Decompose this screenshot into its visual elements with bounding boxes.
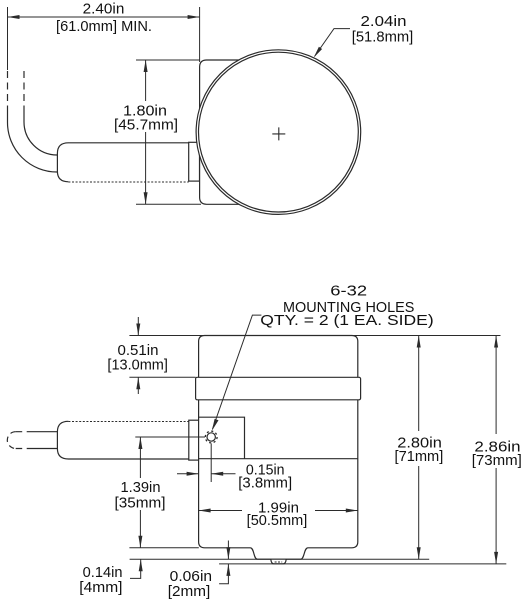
svg-text:[3.8mm]: [3.8mm] — [238, 476, 292, 492]
strain relief (top view) — [57, 143, 188, 182]
arrow 2.40 left — [8, 15, 20, 19]
dimension line 2.40in — [8, 16, 200, 18]
square body (top view, tab under cap, rounded left corners) — [200, 60, 290, 204]
svg-text:0.06in: 0.06in — [170, 569, 212, 585]
dimension 0.51in stubs and arrows — [137, 317, 139, 394]
arrow leader QTY — [212, 419, 219, 431]
ferrule (top view) — [189, 142, 200, 181]
svg-text:[45.7mm]: [45.7mm] — [114, 118, 178, 134]
seam line — [199, 458, 358, 460]
arrow 1.39 top (up) — [138, 437, 142, 449]
svg-text:[35mm]: [35mm] — [115, 496, 166, 512]
arrow 1.99 right — [346, 509, 358, 513]
dimension 1.99in lines — [199, 510, 358, 512]
band top extension line — [129, 376, 195, 378]
round cap inner circle — [199, 52, 359, 212]
ferrule (side view) — [189, 420, 200, 460]
arrow 1.39 bottom (down) — [138, 536, 142, 548]
leader 2.04in — [315, 29, 350, 56]
extension line 1.80 top — [136, 59, 200, 61]
arrow 2.80 top (up) — [417, 336, 421, 348]
extension line B (platform bottom) — [130, 558, 430, 560]
dimension 2.40in extension line right — [199, 7, 201, 62]
arrow 0.51 top (down) — [136, 324, 140, 336]
hole center horizontal extension — [135, 436, 205, 438]
extension line A (body bottom, left) — [129, 547, 198, 549]
dome inner line — [275, 561, 283, 563]
arrow 0.14 (up at line B) — [139, 559, 143, 571]
arrow 1.80 bottom — [144, 192, 148, 204]
mounting hole 6-32 thread dashes — [205, 431, 217, 443]
dimension 0.06in stubs — [219, 541, 228, 584]
arrow 0.15 right-pointing — [187, 472, 199, 476]
svg-text:2.40in: 2.40in — [83, 1, 125, 17]
round cap outer circle (2.04in dia) — [196, 50, 361, 215]
arrow leader 2.04 — [314, 47, 323, 58]
svg-text:[73mm]: [73mm] — [472, 453, 522, 469]
svg-text:6-32: 6-32 — [330, 283, 367, 299]
mounting hole circle — [207, 433, 215, 441]
dimension 2.40in extension line left — [7, 7, 9, 70]
dimension 0.14in stub and arrow — [130, 559, 141, 578]
svg-text:[71mm]: [71mm] — [395, 449, 444, 465]
dimension 1.39in line — [139, 437, 141, 548]
center cross — [272, 127, 285, 140]
hole center vertical extension — [210, 444, 212, 483]
cable (side view) — [7, 432, 57, 449]
svg-text:1.39in: 1.39in — [121, 480, 161, 496]
arrow 2.80 bottom (down) — [417, 547, 421, 559]
svg-text:QTY. = 2 (1 EA. SIDE): QTY. = 2 (1 EA. SIDE) — [260, 313, 433, 329]
svg-text:[13.0mm]: [13.0mm] — [107, 358, 168, 374]
dimension line 1.80in — [145, 60, 147, 204]
extension line 1.80 bottom — [136, 203, 201, 205]
arrow 0.15 left-pointing — [211, 472, 223, 476]
arrow 0.06 top (down at line B) — [226, 547, 230, 559]
arrow 0.51 bottom (up) — [136, 377, 140, 389]
svg-text:[61.0mm] MIN.: [61.0mm] MIN. — [56, 19, 152, 35]
mounting boss rectangle — [199, 417, 245, 459]
arrow 1.99 left — [199, 509, 211, 513]
arrow 2.40 right — [188, 15, 200, 19]
dimension 2.86in line — [495, 336, 497, 564]
clamp band ring — [196, 377, 361, 400]
body outline with bottom recess (side view) — [199, 336, 358, 560]
dome button (bottom) — [271, 559, 286, 564]
svg-text:[4mm]: [4mm] — [79, 580, 122, 596]
svg-text:0.51in: 0.51in — [118, 343, 159, 359]
svg-text:[51.8mm]: [51.8mm] — [352, 30, 414, 46]
arrow 1.80 top — [144, 60, 148, 72]
svg-text:[50.5mm]: [50.5mm] — [247, 513, 308, 529]
svg-text:0.14in: 0.14in — [83, 565, 123, 581]
strain relief (side view) — [57, 421, 188, 459]
svg-text:[2mm]: [2mm] — [168, 584, 211, 600]
cable (top view, dashed break section) — [8, 71, 58, 172]
leader QTY mounting holes — [213, 315, 262, 429]
dimension 0.15in lines — [177, 473, 236, 475]
dimension 2.80in line — [418, 336, 420, 560]
extension line C (base plane) — [219, 563, 506, 565]
arrow 2.86 bottom (down) — [494, 552, 498, 564]
arrow 2.86 top (up) — [494, 336, 498, 348]
top extension line (body top, full width) — [129, 335, 500, 337]
arrow 0.06 bottom (up at line C) — [226, 564, 230, 576]
svg-text:2.04in: 2.04in — [361, 14, 407, 30]
